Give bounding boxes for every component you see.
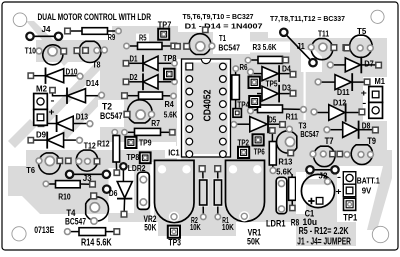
svg-text:J1 - J4= JUMPER: J1 - J4= JUMPER — [297, 236, 351, 247]
svg-text:D1 - D14 = 1N4007: D1 - D14 = 1N4007 — [185, 22, 263, 31]
svg-text:M1: M1 — [375, 77, 386, 86]
resistor R13 (vertical) — [269, 128, 276, 174]
white pocket around R3 label — [250, 42, 290, 53]
svg-text:T8: T8 — [93, 60, 102, 69]
diode D6 (vertical, pointing down) — [117, 163, 132, 217]
diode D14 — [50, 88, 105, 104]
svg-text:BC547: BC547 — [218, 44, 240, 53]
copper pour centre column — [176, 32, 268, 162]
svg-text:R5: R5 — [139, 33, 147, 42]
svg-text:M2: M2 — [36, 84, 48, 93]
svg-text:D11: D11 — [337, 87, 350, 97]
svg-text:DUAL MOTOR CONTROL WITH LDR: DUAL MOTOR CONTROL WITH LDR — [38, 12, 152, 22]
svg-text:-: - — [362, 98, 366, 108]
resistor R12 (vertical) — [112, 130, 119, 176]
svg-text:CD4052: CD4052 — [203, 89, 214, 121]
test point TP3 — [168, 226, 180, 238]
svg-text:T7: T7 — [325, 136, 334, 146]
svg-text:50K: 50K — [144, 223, 156, 233]
svg-text:R10: R10 — [58, 191, 71, 201]
svg-text:10u: 10u — [303, 217, 318, 227]
diode D8 — [324, 121, 378, 139]
diode D5 — [231, 115, 285, 133]
mounting hole top-right — [371, 10, 384, 23]
white channel left of IC1 — [177, 59, 181, 160]
resistor R4 — [122, 92, 177, 99]
white pocket around D6 — [109, 168, 135, 213]
copper pour top-centre band — [36, 26, 178, 142]
pad square below R6 — [233, 109, 241, 118]
svg-text:+: + — [361, 88, 367, 98]
svg-text:T5,T6,T9,T10 = BC327: T5,T6,T9,T10 = BC327 — [183, 12, 254, 21]
copper diagonal strip right of battery — [367, 166, 392, 230]
copper pour trace from top-left hole — [26, 21, 72, 66]
mounting hole top-left — [13, 13, 27, 27]
LDR1 — [276, 177, 287, 213]
svg-text:R7: R7 — [151, 118, 160, 128]
svg-text:5.6K: 5.6K — [164, 109, 178, 119]
white channel left of T3 — [304, 72, 306, 120]
diode D12 — [311, 103, 365, 121]
svg-text:9V: 9V — [362, 186, 372, 196]
diode D10 — [28, 68, 83, 84]
transistor T5 — [344, 35, 373, 57]
trimmer VR1 — [226, 160, 265, 221]
svg-text:D9: D9 — [36, 131, 47, 140]
svg-text:10K: 10K — [190, 222, 201, 232]
white pocket around T1 labels — [213, 32, 250, 54]
copper diagonal trace into left edge — [8, 119, 37, 148]
svg-text:TP4: TP4 — [237, 100, 250, 109]
diode D3 — [257, 85, 296, 103]
white channel between LDR2 and VR2 — [150, 162, 154, 222]
diode D11 — [315, 73, 370, 91]
svg-text:R6: R6 — [240, 63, 249, 72]
svg-text:-: - — [51, 96, 55, 106]
test point TP7 — [158, 29, 169, 40]
svg-text:D13: D13 — [76, 113, 89, 122]
svg-text:J2: J2 — [319, 171, 328, 181]
white pocket around IC1 label — [165, 146, 182, 158]
transistor T10 — [36, 45, 66, 65]
svg-text:BC547: BC547 — [300, 129, 319, 139]
svg-text:TP6: TP6 — [254, 146, 265, 156]
transistor T6 — [36, 153, 71, 174]
motor terminal M1 — [369, 87, 383, 103]
svg-text:TP2: TP2 — [238, 137, 250, 147]
svg-text:R11: R11 — [286, 111, 298, 121]
white pocket around R5 label — [136, 34, 149, 42]
svg-text:D1: D1 — [130, 54, 139, 63]
svg-text:J4: J4 — [42, 25, 52, 34]
diode D13 — [38, 115, 93, 132]
pad square above T1 — [203, 27, 208, 32]
transistor T4 — [86, 193, 109, 224]
jumper J3 — [66, 171, 110, 178]
resistor R11 — [248, 105, 307, 114]
white pocket around battery terminal — [337, 166, 392, 222]
test point TP8 (upper) — [164, 69, 175, 80]
svg-text:R8: R8 — [291, 218, 299, 228]
svg-text:+: + — [336, 187, 342, 197]
copper tongue below C1 and battery — [296, 220, 356, 246]
svg-text:BATT.1: BATT.1 — [357, 176, 380, 186]
test point TP1 — [344, 198, 356, 210]
svg-text:IC1: IC1 — [168, 148, 180, 158]
svg-text:TP9: TP9 — [139, 138, 152, 148]
test point TP2 — [238, 147, 249, 158]
via ring below J3 — [103, 186, 110, 193]
diode D7 — [327, 57, 381, 74]
svg-text:R3 5.6K: R3 5.6K — [253, 43, 277, 52]
white pocket around M1 — [363, 77, 387, 121]
test point TP8 (lower) — [140, 152, 151, 163]
svg-text:0713E: 0713E — [34, 225, 54, 235]
transistor T11 — [308, 39, 348, 60]
copper diagonal trace left area 1 — [39, 63, 101, 127]
svg-text:BC547: BC547 — [65, 216, 86, 226]
svg-text:D10: D10 — [66, 68, 79, 77]
white notch bottom-left of pour — [8, 196, 108, 222]
svg-text:TP3: TP3 — [168, 238, 181, 248]
transistor T9 — [344, 145, 373, 165]
resistor R9 — [65, 28, 122, 35]
svg-text:BC547: BC547 — [100, 111, 123, 121]
IC1 pads left column (pins 1-8, pin 1 square) — [186, 63, 193, 157]
svg-text:LDR1: LDR1 — [266, 218, 286, 228]
svg-text:T11: T11 — [318, 30, 330, 39]
svg-text:T7,T8,T11,T12 = BC337: T7,T8,T11,T12 = BC337 — [270, 14, 345, 23]
mounting hole bottom-left — [12, 227, 26, 241]
transistor T1 — [175, 34, 215, 55]
svg-text:T5: T5 — [357, 27, 367, 36]
svg-text:D7: D7 — [364, 59, 374, 68]
svg-text:D12: D12 — [333, 97, 347, 107]
svg-text:D8: D8 — [362, 120, 371, 130]
copper diagonal trace left area 2 — [61, 93, 105, 139]
transistor T7 — [310, 146, 342, 166]
IC U1 CD4052 socket body — [182, 59, 231, 157]
test point TP9 — [125, 137, 136, 148]
resistor R6 (vertical) — [232, 66, 240, 108]
svg-text:J1: J1 — [297, 42, 306, 51]
resistor R5 — [124, 42, 177, 49]
svg-text:T2: T2 — [102, 101, 112, 111]
jumper J1 — [280, 29, 317, 67]
resistor R14 — [65, 228, 120, 236]
svg-text:5.6K: 5.6K — [276, 167, 293, 177]
resistor R10 — [43, 181, 95, 188]
transistor T2 — [124, 100, 154, 123]
diode D1 — [123, 55, 177, 72]
svg-text:TP5: TP5 — [266, 79, 279, 88]
svg-text:TP8: TP8 — [127, 152, 140, 162]
svg-text:50K: 50K — [247, 236, 260, 246]
transistor T3 — [277, 126, 297, 155]
svg-text:10K: 10K — [222, 222, 235, 232]
svg-text:T10: T10 — [25, 46, 37, 55]
test point TP6 — [253, 134, 264, 145]
svg-text:D5: D5 — [268, 115, 277, 124]
resistor R2 (vertical) — [198, 166, 208, 220]
svg-text:TP1: TP1 — [343, 213, 357, 223]
svg-text:D6: D6 — [109, 188, 118, 198]
svg-text:-: - — [337, 172, 341, 182]
diode D4 — [248, 65, 296, 82]
test point TP4 — [249, 96, 260, 107]
resistor R3 — [245, 56, 288, 63]
jumper J2 — [306, 166, 338, 173]
copper pour right block — [268, 38, 387, 162]
resistor R8 (vertical) — [289, 174, 296, 211]
copper pour bottom band — [8, 150, 392, 222]
svg-text:TP7: TP7 — [158, 21, 172, 30]
copper tongue below VR trimmers — [158, 220, 236, 236]
svg-text:D14: D14 — [86, 79, 99, 88]
svg-text:D4: D4 — [282, 65, 291, 74]
white pocket around T2 labels — [98, 100, 124, 127]
resistor R1 (vertical) — [213, 166, 223, 220]
svg-text:R13: R13 — [278, 157, 292, 167]
svg-text:T6: T6 — [26, 165, 35, 175]
svg-text:D3: D3 — [282, 84, 291, 93]
battery terminal BATT.1 — [343, 172, 356, 185]
transistor T8 — [74, 41, 107, 62]
trimmer VR2 — [155, 160, 195, 222]
diode D9 — [28, 132, 82, 149]
svg-text:T12: T12 — [84, 140, 96, 150]
svg-text:R12: R12 — [97, 138, 110, 148]
transistor T12 — [76, 150, 100, 171]
svg-text:+: + — [49, 107, 55, 117]
svg-text:R9: R9 — [108, 33, 116, 42]
IC1 pads right column (pins 9-16) — [220, 63, 227, 157]
svg-text:LDR2: LDR2 — [128, 163, 146, 173]
svg-text:T9: T9 — [367, 136, 376, 146]
svg-text:T1: T1 — [219, 34, 227, 43]
LDR2 — [137, 172, 149, 209]
white pocket around J1 lower ring — [301, 50, 322, 72]
svg-text:D2: D2 — [130, 73, 139, 82]
jumper J4 — [26, 33, 62, 40]
test point TP5 — [249, 77, 260, 88]
motor terminal M2 — [34, 94, 48, 110]
mounting hole bottom-right — [372, 226, 388, 242]
resistor R7 — [122, 128, 175, 135]
diode D2 — [123, 73, 177, 90]
svg-text:TP8: TP8 — [163, 54, 177, 63]
svg-text:R4: R4 — [165, 99, 174, 109]
capacitor C1 — [296, 172, 306, 214]
svg-text:R14 5.6K: R14 5.6K — [81, 237, 112, 248]
